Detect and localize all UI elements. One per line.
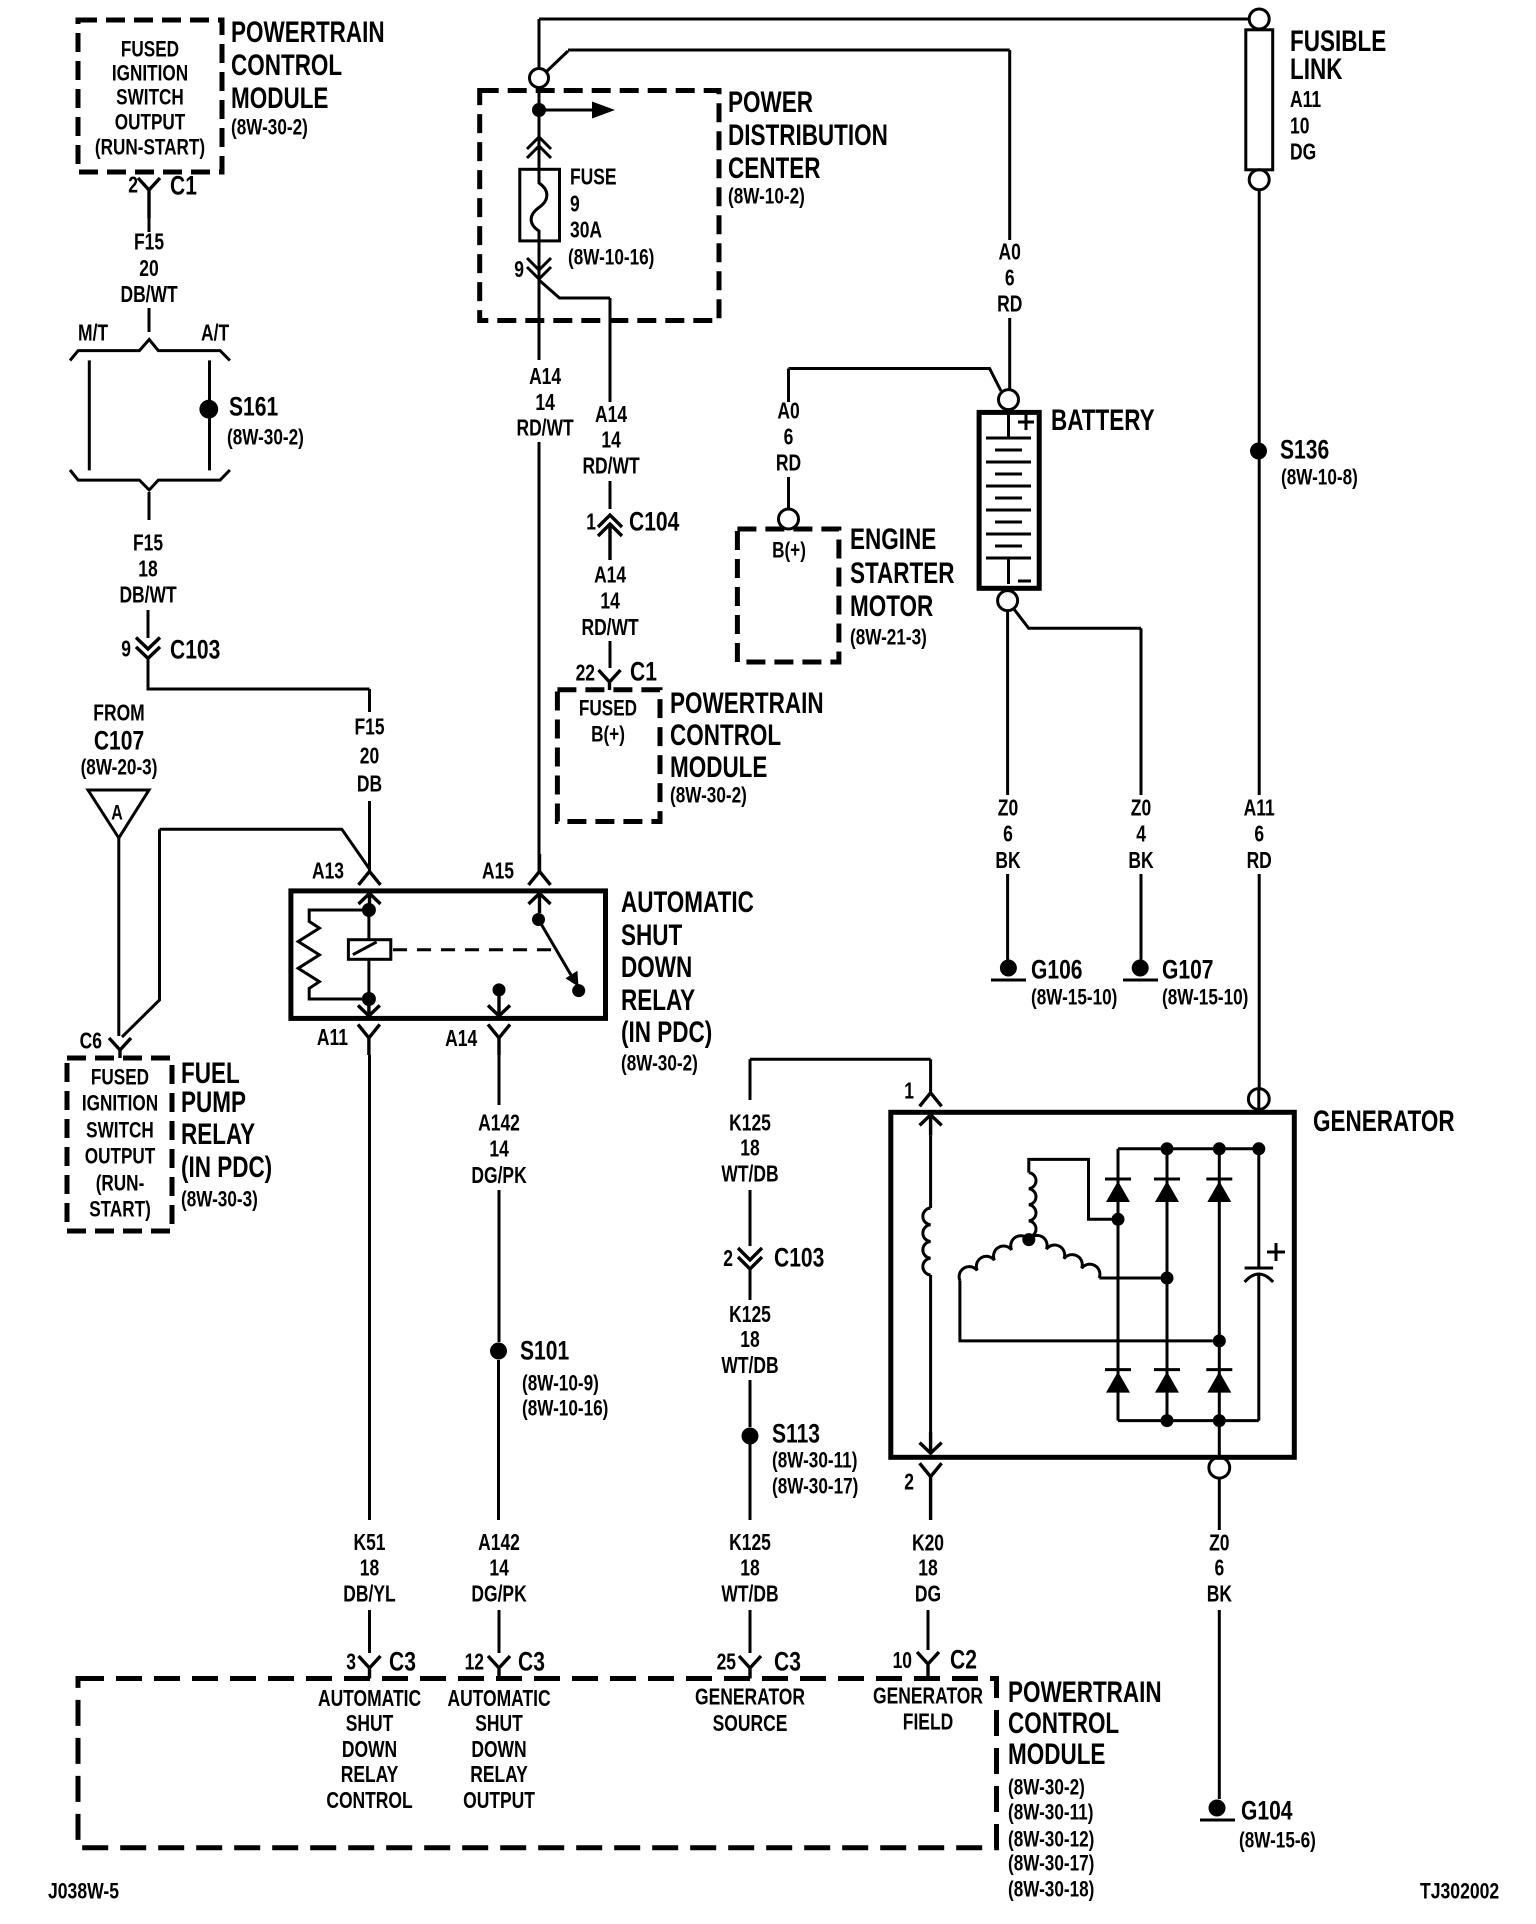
svg-text:POWERTRAIN: POWERTRAIN [231,15,385,49]
svg-text:RELAY: RELAY [341,1763,399,1788]
svg-text:22: 22 [576,662,595,687]
stator winding (right phase) [1029,1235,1161,1278]
svg-text:14: 14 [489,1557,509,1582]
svg-text:DISTRIBUTION: DISTRIBUTION [728,118,888,152]
svg-text:Z0: Z0 [998,797,1018,822]
svg-text:DG/PK: DG/PK [471,1164,527,1189]
generator field winding [929,1136,932,1208]
svg-text:14: 14 [601,429,621,454]
svg-text:Z0: Z0 [1131,797,1151,822]
svg-text:DOWN: DOWN [471,1738,526,1763]
connector C2 pin 10 (Y symbol) [917,1652,939,1679]
diode D6 (bottom, col 3) [1206,1368,1232,1371]
fuse output pin 9, double chevron down [538,241,541,280]
svg-text:(RUN-: (RUN- [96,1172,145,1197]
svg-text:AUTOMATIC: AUTOMATIC [318,1687,421,1712]
svg-text:18: 18 [918,1557,937,1582]
svg-text:S113: S113 [772,1419,820,1449]
svg-text:LINK: LINK [1290,52,1342,86]
wire A142 lower [497,1360,501,1653]
svg-text:SHUT: SHUT [621,918,682,952]
capacitor plus [1267,1243,1285,1261]
svg-text:SHUT: SHUT [475,1712,523,1737]
svg-text:CONTROL: CONTROL [1008,1706,1119,1740]
starter B(+) terminal circle [779,509,799,529]
svg-text:WT/DB: WT/DB [721,1583,778,1608]
wire fuel pump relay branch [122,829,370,1037]
svg-text:DOWN: DOWN [621,950,692,984]
diode column 1 [1117,1149,1120,1421]
battery box [979,412,1039,588]
relay coil box with slash [348,940,390,960]
svg-text:6: 6 [1003,823,1013,848]
battery plus sign [1018,414,1034,430]
svg-text:9: 9 [514,258,524,283]
svg-text:(IN PDC): (IN PDC) [621,1015,712,1049]
svg-text:14: 14 [489,1138,509,1163]
svg-text:RD/WT: RD/WT [582,455,640,480]
diode D1 (top, col 1) [1105,1178,1131,1181]
splice S136 [1250,443,1267,460]
svg-text:K125: K125 [729,1531,771,1556]
powertrain control module box (middle, dashed) [557,690,660,822]
svg-text:A: A [111,800,123,824]
svg-text:SWITCH: SWITCH [86,1119,154,1144]
svg-text:GENERATOR: GENERATOR [1313,1104,1455,1138]
svg-text:OUTPUT: OUTPUT [85,1145,156,1170]
svg-text:SWITCH: SWITCH [116,86,184,111]
label: POWERTRAIN CONTROL MODULE (8W-30-2) [670,686,824,808]
svg-text:A11: A11 [317,1026,348,1051]
svg-text:2: 2 [904,1471,914,1496]
svg-text:BATTERY: BATTERY [1051,403,1155,437]
svg-text:1: 1 [904,1080,914,1105]
capacitor plates [1245,1267,1274,1270]
wire [148,308,151,332]
svg-text:POWERTRAIN: POWERTRAIN [1008,1675,1162,1709]
svg-text:RELAY: RELAY [181,1117,255,1151]
svg-text:25: 25 [717,1651,736,1676]
svg-text:G107: G107 [1162,955,1214,985]
svg-text:F15: F15 [134,231,164,256]
svg-text:6: 6 [784,426,794,451]
label: POWER DISTRIBUTION CENTER (8W-10-2) [728,85,888,209]
svg-text:BK: BK [1128,849,1153,874]
svg-text:K125: K125 [729,1112,771,1137]
svg-text:K125: K125 [729,1303,771,1328]
wire battery+ to starter B(+) [789,369,1002,510]
svg-text:2: 2 [723,1247,733,1272]
powertrain control module box (top-left, dashed) [78,20,222,172]
fusible link terminal circle (top) [1249,9,1269,29]
svg-text:A11: A11 [1290,88,1321,113]
svg-text:RD/WT: RD/WT [516,417,574,442]
svg-text:A0: A0 [999,241,1021,266]
splice S101 [490,1343,507,1360]
svg-text:A0: A0 [777,400,799,425]
connector C104 pin 1 (double chevron up) [598,515,622,560]
svg-text:RD: RD [776,452,801,477]
svg-text:POWER: POWER [728,85,813,119]
svg-text:A142: A142 [478,1531,520,1556]
svg-text:CONTROL: CONTROL [670,718,781,752]
relay switch NO contact dot [572,984,585,997]
svg-text:M/T: M/T [78,322,109,347]
svg-text:RD/WT: RD/WT [581,616,639,641]
svg-text:18: 18 [138,558,157,583]
svg-text:DG/PK: DG/PK [471,1583,527,1608]
svg-text:IGNITION: IGNITION [112,62,188,87]
svg-text:3: 3 [346,1651,356,1676]
svg-text:C3: C3 [518,1647,545,1677]
svg-text:(8W-10-9): (8W-10-9) [522,1372,599,1397]
svg-text:S101: S101 [520,1336,569,1366]
svg-text:20: 20 [139,257,158,282]
svg-text:GENERATOR: GENERATOR [873,1685,983,1710]
stator tap dot col 2 [1161,1272,1174,1285]
svg-text:18: 18 [740,1328,759,1353]
battery minus sign [1018,580,1031,583]
svg-text:MODULE: MODULE [670,750,767,784]
relay switch: common dot [532,913,545,926]
svg-text:A142: A142 [478,1112,520,1137]
svg-text:DB/YL: DB/YL [343,1583,395,1608]
svg-text:C6: C6 [80,1030,102,1055]
svg-text:START): START) [89,1198,151,1223]
wire K125 18 WT/DB (middle) [749,1269,752,1427]
rail junction dots [1161,1142,1174,1155]
svg-text:BK: BK [1207,1583,1232,1608]
svg-text:18: 18 [740,1137,759,1162]
ground G106 [1000,960,1017,977]
rectifier bottom rail [1118,1419,1259,1422]
svg-text:4: 4 [1136,823,1146,848]
generator B+ terminal circle [1248,1089,1269,1110]
svg-text:C103: C103 [774,1243,824,1273]
svg-text:14: 14 [600,590,620,615]
svg-text:(8W-30-12): (8W-30-12) [1008,1828,1094,1853]
svg-text:DB/WT: DB/WT [119,584,177,609]
svg-text:C3: C3 [389,1647,416,1677]
svg-text:FUSED: FUSED [121,38,179,63]
wire Z0 4 BK (battery- to G107) [1014,609,1142,961]
svg-text:(8W-30-11): (8W-30-11) [772,1449,857,1474]
svg-text:(8W-30-2): (8W-30-2) [227,426,304,451]
svg-text:DOWN: DOWN [342,1738,397,1763]
svg-text:IGNITION: IGNITION [82,1092,158,1117]
wire Z0 6 BK (battery- to G106) [1006,611,1009,960]
svg-text:(8W-30-2): (8W-30-2) [231,116,308,141]
svg-text:A14: A14 [594,564,627,589]
relay coil resistor [298,910,369,999]
svg-text:A14: A14 [529,365,562,390]
stator windings: center junction [1022,1233,1035,1246]
svg-text:AUTOMATIC: AUTOMATIC [447,1687,550,1712]
svg-text:S136: S136 [1280,435,1329,465]
svg-text:(8W-10-2): (8W-10-2) [728,185,805,210]
connector C3 pin 25 (Y symbol) [739,1656,761,1679]
battery positive terminal circle [999,390,1019,410]
svg-text:RELAY: RELAY [470,1763,528,1788]
svg-text:(8W-30-2): (8W-30-2) [670,784,747,809]
merge brace (bottom) [70,470,230,490]
wire K51 18 DB/YL [368,1055,371,1653]
fuel pump relay box (dashed) [67,1058,172,1231]
svg-text:SOURCE: SOURCE [713,1712,788,1737]
svg-text:C2: C2 [950,1645,977,1675]
svg-text:PUMP: PUMP [181,1085,246,1119]
svg-text:(8W-15-6): (8W-15-6) [1239,1829,1316,1854]
svg-text:9: 9 [121,638,131,663]
label: AUTOMATIC SHUT DOWN RELAY (IN PDC) (8W-30-2) [621,885,754,1076]
svg-text:6: 6 [1254,823,1264,848]
fuse 9 30A [520,169,560,241]
svg-text:RELAY: RELAY [621,983,695,1017]
svg-text:DB: DB [357,773,382,798]
svg-text:C103: C103 [170,635,220,665]
svg-text:K51: K51 [353,1531,385,1556]
ground G104 [1209,1800,1226,1817]
svg-text:(8W-21-3): (8W-21-3) [850,626,927,651]
wire M/T branch [88,360,91,470]
stator winding (left phase) [959,1236,1213,1341]
svg-text:K20: K20 [912,1532,944,1557]
svg-text:C1: C1 [630,657,657,687]
svg-text:CENTER: CENTER [728,151,820,185]
svg-text:FUSED: FUSED [91,1066,149,1091]
connector C1 pin 22 (Y symbol) [599,670,621,690]
wire split to C104 branch [539,280,610,402]
dashed actuate line [393,948,553,951]
svg-text:STARTER: STARTER [850,556,955,590]
svg-text:MODULE: MODULE [231,81,328,115]
wire: top feed to fusible link [539,19,1248,69]
svg-text:12: 12 [465,1651,484,1676]
svg-text:DG: DG [915,1583,941,1608]
svg-text:A13: A13 [312,860,344,885]
wire generator case to B+ vertical [1257,1089,1260,1109]
svg-text:(8W-30-2): (8W-30-2) [621,1052,698,1077]
relay coil wire [367,910,370,999]
svg-text:S161: S161 [229,392,278,422]
svg-text:(RUN-START): (RUN-START) [95,136,205,161]
diode D4 (bottom, col 1) [1105,1368,1131,1371]
svg-text:B(+): B(+) [591,723,625,748]
svg-text:WT/DB: WT/DB [721,1163,778,1188]
svg-text:C3: C3 [774,1647,801,1677]
svg-text:AUTOMATIC: AUTOMATIC [621,885,754,919]
svg-text:C1: C1 [170,171,197,201]
svg-text:9: 9 [570,193,580,218]
svg-text:C104: C104 [629,507,680,537]
svg-text:FIELD: FIELD [903,1711,953,1736]
box text: FUSED IGNITION SWITCH OUTPUT (RUN-START) [95,38,205,161]
svg-text:WT/DB: WT/DB [721,1354,778,1379]
pin 2 connector at generator bottom [920,1432,942,1520]
battery negative terminal circle [998,591,1018,611]
svg-text:(8W-30-2): (8W-30-2) [1008,1776,1085,1801]
stator winding (vertical phase) [1029,1159,1112,1239]
svg-text:6: 6 [1005,267,1015,292]
generator output terminal circle (bottom) [1209,1457,1230,1478]
connector C3 pin 3 (Y symbol) [359,1656,381,1679]
svg-text:CONTROL: CONTROL [231,48,342,82]
svg-text:A14: A14 [595,403,628,428]
svg-text:(8W-20-3): (8W-20-3) [81,756,158,781]
wire F15 18 DB/WT [148,492,151,520]
svg-text:(8W-10-8): (8W-10-8) [1281,466,1358,491]
label: POWERTRAIN CONTROL MODULE (8W-30-2) [231,15,385,140]
label: FUSIBLE LINK A11 10 DG [1290,24,1386,165]
svg-text:MOTOR: MOTOR [850,589,933,623]
svg-text:6: 6 [1214,1557,1224,1582]
wire fusible link to generator [1258,190,1261,1089]
svg-text:B(+): B(+) [772,539,806,564]
svg-text:DB/WT: DB/WT [120,283,178,308]
junction dot + arrow (other circuits) [532,103,546,117]
label: POWERTRAIN CONTROL MODULE refs [1008,1675,1162,1902]
svg-text:RD: RD [997,293,1022,318]
wire K20 18 DG [927,1610,930,1650]
relay coil junction dot (top) [362,903,376,917]
svg-text:TJ302002: TJ302002 [1420,1880,1499,1904]
connector C3 pin 12 (Y symbol) [488,1656,510,1679]
svg-text:Z0: Z0 [1209,1532,1229,1557]
fusible link body [1246,30,1273,170]
label: FUEL PUMP RELAY (IN PDC) (8W-30-3) [181,1056,272,1212]
svg-text:2: 2 [128,174,138,199]
wire K125 to generator pin 1 [750,1059,931,1093]
in-line connector C103 pin 9 (double chevron) [136,638,160,659]
svg-text:(8W-15-10): (8W-15-10) [1162,986,1248,1011]
pin function: automatic shut down relay output [447,1687,550,1814]
connector C6 (Y symbol) [109,1038,131,1058]
svg-text:POWERTRAIN: POWERTRAIN [670,686,824,720]
relay output dot (A14) [493,983,506,996]
wire A/T branch [208,360,211,470]
svg-text:F15: F15 [133,532,163,557]
svg-text:SHUT: SHUT [346,1712,394,1737]
svg-text:30A: 30A [570,219,602,244]
capacitor branch wire [1257,1149,1260,1421]
wire: second feed to battery [546,50,1010,240]
in-line connector C103 pin 2 (double chevron) [738,1248,762,1269]
connector C1 pin 2 (Y symbol) [138,178,160,218]
bottom rail dots [1161,1414,1174,1427]
fusible link terminal circle (bottom) [1249,170,1269,190]
svg-text:(8W-10-16): (8W-10-16) [568,246,654,271]
wire K125 18 WT/DB (lower) [749,1444,752,1653]
svg-text:MODULE: MODULE [1008,1737,1105,1771]
svg-text:GENERATOR: GENERATOR [695,1686,805,1711]
svg-text:(8W-30-18): (8W-30-18) [1008,1878,1094,1903]
svg-text:(8W-10-16): (8W-10-16) [522,1397,608,1422]
svg-text:A14: A14 [445,1027,478,1052]
wire Z0 6 BK to G104 [1218,1478,1221,1799]
relay switch arm with arrowhead [539,920,572,976]
svg-text:G104: G104 [1241,1796,1293,1826]
svg-text:G106: G106 [1031,955,1083,985]
battery internal plates [1007,410,1010,438]
svg-text:(8W-30-17): (8W-30-17) [772,1475,858,1500]
svg-text:14: 14 [535,391,555,416]
wire F15 20 DB/WT [148,218,151,232]
svg-text:DG: DG [1290,141,1316,166]
svg-text:(8W-30-11): (8W-30-11) [1008,1801,1093,1826]
svg-text:OUTPUT: OUTPUT [463,1789,535,1814]
main wire down to relay A15 [538,280,541,871]
splice S113 [742,1428,759,1445]
diode D2 (top, col 2) [1154,1178,1180,1181]
wire A142 14 DG/PK [498,1055,501,1342]
svg-text:ENGINE: ENGINE [850,522,936,556]
diode D3 (top, col 3) [1206,1178,1232,1181]
wire K125 18 WT/DB (upper) [749,1059,752,1246]
svg-text:A/T: A/T [201,322,230,347]
pin function: automatic shut down relay control [318,1687,421,1814]
svg-text:J038W-5: J038W-5 [48,1880,119,1904]
svg-text:(IN PDC): (IN PDC) [181,1150,272,1184]
terminal circle at PDC [530,69,549,88]
stator tap dot col 1 [1112,1213,1125,1226]
splice S161 [199,400,218,419]
wire from C103 to A13 [148,658,370,712]
svg-text:CONTROL: CONTROL [326,1789,412,1814]
relay box [291,891,606,1019]
svg-text:10: 10 [893,1649,912,1674]
pin function: generator source [695,1686,805,1737]
svg-text:BK: BK [995,849,1020,874]
pin function: generator field [873,1685,983,1736]
svg-text:1: 1 [586,511,596,536]
svg-text:FUSE: FUSE [570,166,617,191]
diode D5 (bottom, col 2) [1154,1368,1180,1371]
rectifier top rail [1118,1147,1259,1150]
svg-text:A11: A11 [1244,797,1275,822]
stator tap dot col 3 [1213,1334,1226,1347]
wire with chevrons up [538,88,541,169]
svg-text:(8W-30-17): (8W-30-17) [1008,1852,1094,1877]
engine starter motor box (dashed) [737,529,839,662]
wire from triangle A to C6 [117,838,120,1036]
svg-text:C107: C107 [94,726,144,756]
diode column 2 [1166,1149,1169,1421]
svg-text:RD: RD [1247,849,1272,874]
PDC box (dashed) [480,91,719,321]
svg-text:(8W-30-3): (8W-30-3) [181,1188,258,1213]
ground G107 [1132,960,1149,977]
powertrain control module box (bottom, dashed) [78,1679,997,1848]
diode column 3 [1218,1149,1221,1458]
svg-text:10: 10 [1290,115,1309,140]
svg-text:F15: F15 [354,716,384,741]
svg-text:OUTPUT: OUTPUT [115,111,186,136]
svg-text:FROM: FROM [93,702,144,727]
label: ENGINE STARTER MOTOR (8W-21-3) [850,522,955,650]
svg-text:(8W-15-10): (8W-15-10) [1031,986,1117,1011]
relay coil junction dot (bottom) [362,992,376,1006]
svg-text:20: 20 [360,745,379,770]
svg-text:A15: A15 [482,860,514,885]
svg-text:18: 18 [360,1557,379,1582]
svg-text:18: 18 [740,1557,759,1582]
svg-text:FUSED: FUSED [579,697,637,722]
generator box [891,1112,1295,1457]
